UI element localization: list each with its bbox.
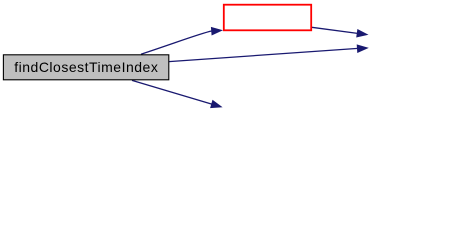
arrowhead E4 <box>210 100 223 108</box>
arrowhead E3 <box>357 44 369 53</box>
node (truncated, red outline) <box>224 5 311 31</box>
arrowhead E1 <box>211 27 223 36</box>
wire E2: red node to right node <box>312 27 358 33</box>
arrowhead E2 <box>356 29 368 38</box>
node findClosestTimeIndex (current, gray) <box>3 55 168 80</box>
svg-text:findClosestTimeIndex: findClosestTimeIndex <box>14 59 158 75</box>
wire E3: gray node to lower-right node <box>169 48 358 61</box>
wire E4: gray node to bottom node <box>132 80 213 104</box>
wire E1: gray node to red node <box>141 31 212 54</box>
